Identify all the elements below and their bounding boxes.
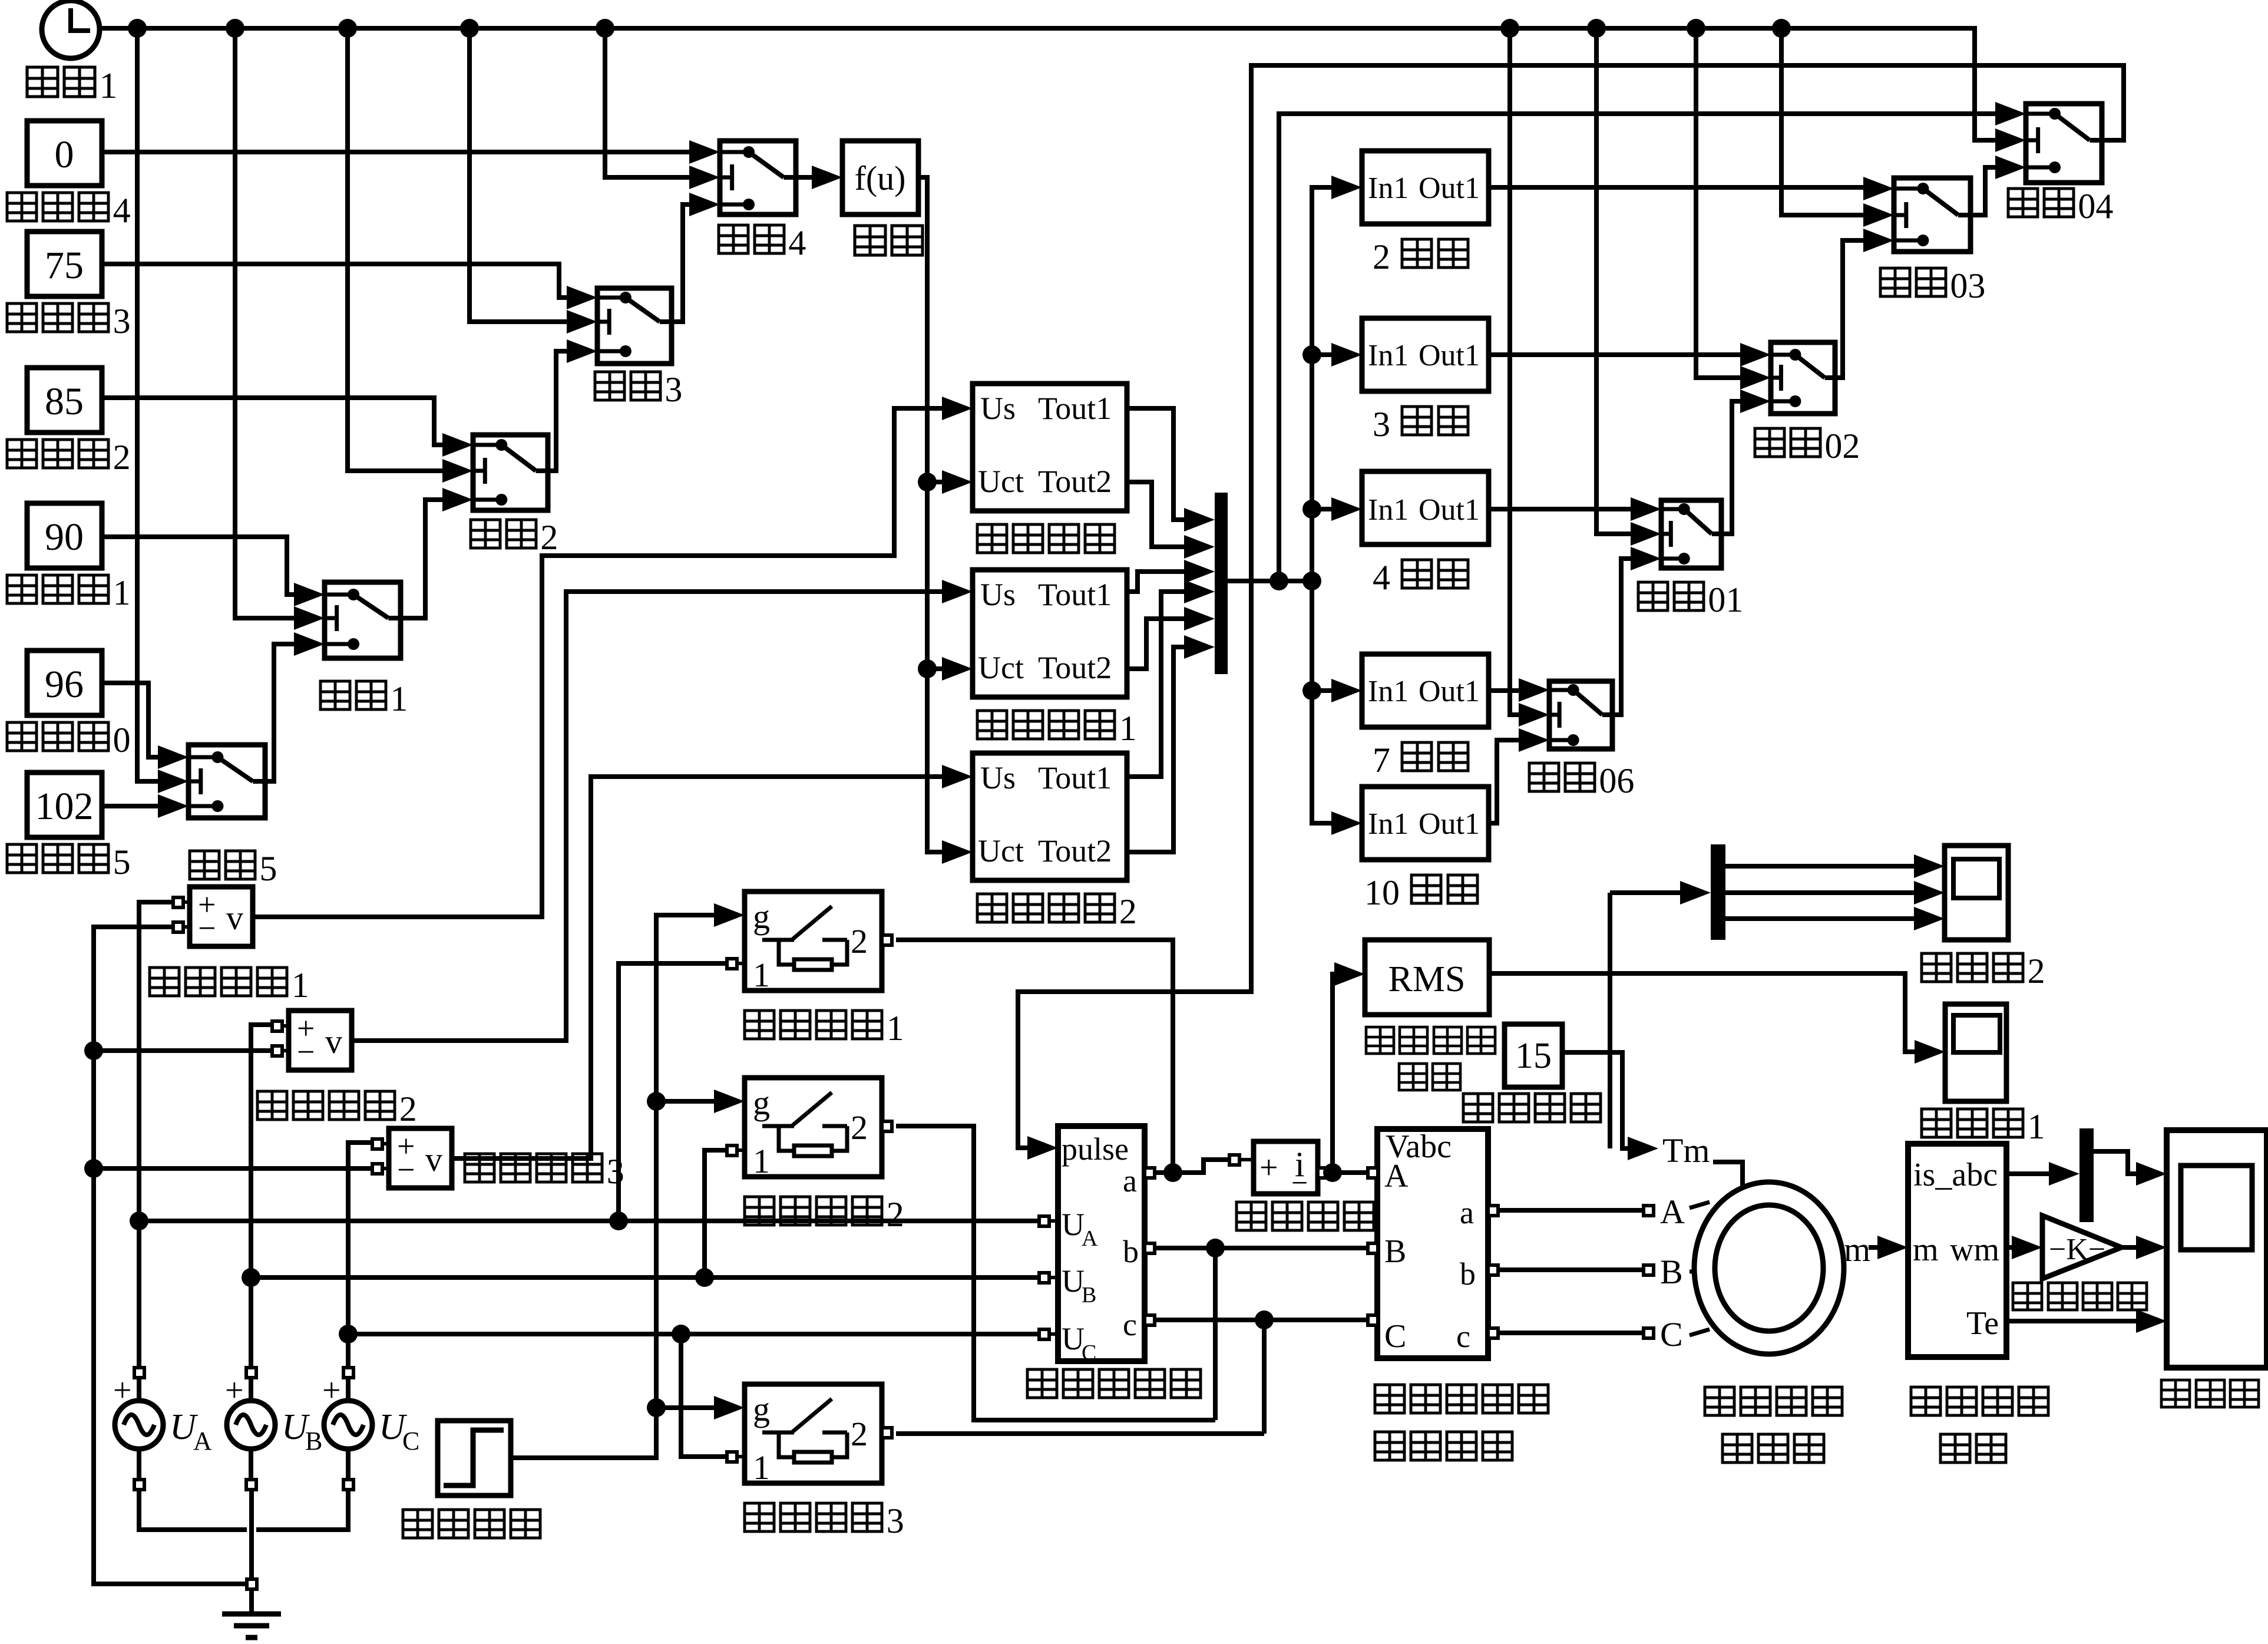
node clock junction x590: [338, 19, 357, 38]
svg-text:C: C: [1660, 1315, 1683, 1354]
port 1 of 理想开关1: [727, 959, 737, 969]
label 开关 02: [1755, 428, 1784, 457]
wire 15 to Tm input: [1562, 1052, 1628, 1148]
label 同步触发: [977, 524, 1007, 553]
port a of Vabc: [1488, 1206, 1498, 1216]
arrowhead into 开关04 input2: [1995, 128, 2026, 152]
motor block 三相异步电动机: [1694, 1182, 1844, 1354]
label 函数: [855, 226, 885, 255]
svg-text:In1: In1: [1368, 675, 1409, 708]
svg-text:C: C: [402, 1427, 419, 1455]
port 2 of 理想开关 3: [882, 1428, 892, 1438]
wire to 同步触发 Uct: [927, 480, 942, 484]
scope block 示波器2: [1945, 846, 2008, 940]
wire feeder up to 2分频 input: [1312, 187, 1331, 581]
svg-text:4: 4: [788, 223, 806, 262]
svg-text:Tm: Tm: [1662, 1131, 1710, 1170]
arrowhead into 示波器2: [1914, 907, 1945, 930]
node clock junction x2879: [1687, 19, 1705, 38]
wire 同步触发2 Tout1 to mux: [1127, 592, 1184, 777]
node clock junction x797: [460, 19, 479, 38]
wire clock to 开关4 threshold: [605, 28, 689, 177]
svg-text:Us: Us: [980, 577, 1016, 612]
svg-text:Uct: Uct: [978, 650, 1024, 685]
current measurement block 电流测量: [1254, 1141, 1318, 1194]
arrowhead g 理想开关2: [714, 1090, 745, 1113]
svg-text:1: 1: [292, 966, 309, 1005]
svg-text:v: v: [325, 1022, 342, 1061]
wire measurement common bus to ground: [94, 927, 247, 1584]
wire clock to 开关3 threshold: [470, 28, 567, 322]
arrowhead g 理想开关3: [714, 1396, 745, 1419]
label 三相电压、: [1375, 1385, 1404, 1413]
svg-text:04: 04: [2078, 187, 2113, 226]
arrowhead into 示波器2: [1914, 854, 1945, 878]
node feeder tap 4分频: [1302, 500, 1321, 519]
svg-text:3: 3: [113, 302, 131, 341]
port + of 电流测量: [1229, 1155, 1239, 1165]
svg-text:75: 75: [45, 244, 84, 287]
subsystem block 2 分频 In1 Out1: [1362, 151, 1489, 224]
svg-text:Uct: Uct: [978, 464, 1024, 499]
scope block 示波器: [2167, 1130, 2267, 1368]
wire UB- to ground: [249, 1489, 254, 1579]
node UC row tap to 理想开关3: [672, 1325, 690, 1343]
wire 0 to 开关4 input1: [102, 150, 689, 154]
svg-text:In1: In1: [1368, 493, 1409, 527]
svg-text:g: g: [753, 897, 770, 936]
wire 阶跃脉冲 to g of 理想开关1: [511, 915, 714, 1458]
port c of Vabc: [1488, 1328, 1498, 1338]
subsystem block 同步触发: [973, 384, 1127, 511]
svg-text:1: 1: [887, 1009, 904, 1048]
wire 75 to 开关3 input1: [102, 264, 567, 298]
port C of Vabc: [1368, 1315, 1378, 1325]
label 开关 2: [471, 520, 500, 548]
svg-text:01: 01: [1708, 580, 1743, 619]
svg-text:a: a: [1123, 1163, 1137, 1199]
wire 同步触发 Tout2 to mux: [1127, 482, 1184, 547]
svg-text:wm: wm: [1950, 1232, 1999, 1268]
wire b output to Vabc B: [1154, 1246, 1368, 1250]
svg-text:1: 1: [753, 1448, 770, 1487]
wire 85 to 开关2 input1: [102, 398, 442, 445]
node UB row tap to 理想开关2: [695, 1268, 714, 1287]
wire UC row: [348, 1332, 1039, 1336]
svg-text:2: 2: [113, 438, 131, 477]
wire clock to 开关1 threshold: [235, 28, 294, 618]
svg-text:1: 1: [753, 1142, 770, 1180]
wire 电流测量 to Vabc A: [1327, 1170, 1368, 1175]
port a of 主调压模块: [1145, 1168, 1155, 1178]
svg-text:1: 1: [1119, 709, 1137, 748]
port - of 电压测量 1: [173, 922, 183, 932]
wire Tm to motor: [1713, 1162, 1743, 1186]
svg-text:1: 1: [753, 956, 770, 994]
svg-text:In1: In1: [1368, 807, 1409, 841]
wire 开关1 output to 开关2 input3: [401, 500, 442, 618]
node feeder tap 3分频: [1302, 345, 1321, 364]
wire 开关2 output to 开关3 input3: [548, 351, 567, 471]
svg-text:5: 5: [259, 849, 277, 888]
port c of 主调压模块: [1145, 1315, 1155, 1325]
subsystem block 主调压模块: [1058, 1126, 1145, 1361]
node clock junction x233: [128, 19, 147, 38]
svg-text:1: 1: [113, 573, 131, 612]
wire mux output direct to 开关04 input1: [1279, 114, 1995, 581]
arrowhead into pulse: [1027, 1136, 1058, 1160]
port UB of 主调压模块: [1039, 1273, 1049, 1283]
constant block 触发角3 value 75: [27, 232, 102, 296]
port 2 of 理想开关 1: [882, 935, 892, 945]
wire 电压测量1 output to 同步触发 Us: [253, 408, 942, 917]
wire 开关4 output to 函数: [796, 175, 812, 180]
constant block 触发角2 value 85: [27, 368, 102, 433]
label 主调压模块: [1027, 1369, 1057, 1398]
wire UB tap to 理想开关2 port1: [705, 1150, 727, 1277]
constant block 最大转矩 value 15: [1505, 1024, 1562, 1087]
label 分配: [1940, 1434, 1970, 1463]
svg-text:2: 2: [1373, 237, 1390, 276]
switch block 开关 02: [1771, 342, 1835, 414]
node C bus to UC row: [339, 1325, 358, 1343]
label 电动机: [1723, 1434, 1752, 1463]
switch block 开关 3: [597, 288, 672, 364]
svg-text:Out1: Out1: [1419, 675, 1480, 708]
port A of Vabc: [1368, 1168, 1378, 1178]
subsystem block 7 分频 In1 Out1: [1362, 654, 1489, 727]
svg-text:C: C: [1082, 1341, 1096, 1365]
wire to 电压测量2 -: [94, 1048, 273, 1053]
svg-text:f(u): f(u): [855, 159, 906, 197]
svg-text:A: A: [193, 1427, 212, 1455]
label 电流均方: [1366, 1027, 1394, 1054]
port C of motor: [1644, 1328, 1654, 1338]
port 1 of 理想开关3: [727, 1452, 737, 1462]
port - of UC: [343, 1480, 353, 1490]
node clock junction x399: [226, 19, 244, 38]
mux block (scope combiner): [2079, 1128, 2094, 1222]
ground symbol: [249, 1589, 254, 1614]
gain block 转速计算: [2042, 1216, 2121, 1279]
label 转速计算: [2013, 1283, 2042, 1310]
label 同步触发 1: [977, 711, 1007, 739]
wire RMS output to 示波器1: [1489, 973, 1915, 1052]
wire wm to 转速计算: [2006, 1245, 2012, 1250]
wire 电压测量2 output to 同步触发1 Us: [352, 592, 942, 1041]
svg-text:v: v: [425, 1140, 442, 1178]
arrowhead into 示波器2: [1914, 881, 1945, 904]
wire mux output: [1228, 579, 1312, 583]
subsystem block 4 分频 In1 Out1: [1362, 471, 1489, 544]
port + of 电压测量 1: [173, 897, 183, 907]
svg-text:3: 3: [607, 1152, 624, 1191]
subsystem block 3 分频 In1 Out1: [1362, 318, 1489, 391]
arrowhead into 多路测量分配: [1877, 1236, 1908, 1259]
svg-text:−K−: −K−: [2049, 1233, 2105, 1266]
wire 电压测量3 output to 同步触发2 Us: [451, 777, 942, 1158]
wire UA- to neutral: [139, 1489, 247, 1530]
label 三相异步: [1705, 1387, 1734, 1415]
wire 开关01 output to 开关02 input3: [1721, 401, 1740, 534]
arrowhead into RMS: [1334, 962, 1365, 986]
wire to 电压测量3 -: [94, 1166, 373, 1171]
node g tap 理想开关2: [647, 1092, 666, 1111]
wire 开关04 output feedback to 主调压模块 pulse input: [1018, 65, 2124, 1148]
subsystem block 同步触发 2: [973, 753, 1127, 880]
wire mux output to 示波器: [2094, 1151, 2136, 1174]
svg-text:10: 10: [1364, 873, 1400, 912]
port - of UA: [134, 1480, 144, 1490]
voltage measurement block 电压测量 3: [389, 1128, 452, 1188]
port A of motor: [1644, 1206, 1654, 1216]
wire 2分频 output to 开关03 input1: [1489, 185, 1863, 190]
port - of UB: [246, 1480, 256, 1490]
switch block 开关 04: [2026, 104, 2102, 183]
node b junction: [1206, 1239, 1225, 1257]
label 同步触发 2: [977, 894, 1007, 922]
label 理想开关 1: [745, 1011, 774, 1039]
svg-text:b: b: [1123, 1234, 1139, 1269]
constant block 触发角4 value 0: [27, 121, 102, 186]
port + of UC: [343, 1368, 353, 1378]
node Uct tap 同步触发: [918, 473, 937, 491]
svg-text:is_abc: is_abc: [1913, 1157, 1998, 1193]
node c junction: [1255, 1310, 1274, 1329]
label 理想开关 3: [745, 1503, 774, 1531]
label 电压测量 3: [465, 1154, 494, 1182]
wire Te to 示波器: [2006, 1319, 2136, 1323]
svg-text:v: v: [226, 899, 243, 937]
arrowhead into 示波器1: [1915, 1040, 1945, 1064]
svg-text:Uct: Uct: [978, 833, 1024, 869]
subsystem block 10 分频 In1 Out1: [1362, 787, 1489, 860]
node clock junction x3024: [1772, 19, 1791, 38]
label 理想开关 2: [745, 1197, 774, 1225]
label 时钟 1: [27, 67, 58, 97]
svg-text:−: −: [1291, 1166, 1308, 1199]
wire UA tap to 理想开关1 port1: [619, 963, 727, 1221]
wire gain output to 示波器: [2121, 1245, 2136, 1250]
label 触发角 5: [7, 844, 37, 873]
wire phase C bus: [348, 1143, 373, 1368]
label 开关 4: [719, 225, 748, 253]
svg-text:7: 7: [1373, 741, 1390, 780]
svg-text:C: C: [1384, 1318, 1406, 1355]
port UC of 主调压模块: [1039, 1329, 1049, 1339]
wire a to motor A: [1497, 1208, 1644, 1213]
svg-text:Tout1: Tout1: [1038, 577, 1112, 612]
svg-text:In1: In1: [1368, 339, 1409, 372]
port + of UB: [246, 1368, 256, 1378]
wire a output to 电流测量 +: [1154, 1160, 1229, 1173]
constant block 触发角0 value 96: [27, 651, 102, 715]
svg-text:In1: In1: [1368, 171, 1409, 205]
svg-text:Tout1: Tout1: [1038, 760, 1112, 795]
port - of 电压测量 3: [372, 1164, 382, 1174]
svg-text:Tout2: Tout2: [1038, 464, 1112, 499]
arrowhead g 理想开关1: [714, 903, 745, 927]
demux block 多路测量分配: [1908, 1144, 2006, 1357]
port 1 of 理想开关2: [727, 1145, 737, 1156]
label 示波器 1: [1922, 1109, 1951, 1137]
svg-text:1: 1: [99, 66, 117, 106]
port ground: [247, 1579, 257, 1589]
svg-text:g: g: [753, 1390, 770, 1428]
wire 4分频 output to 开关01 input1: [1489, 507, 1631, 511]
wire UC- to neutral: [256, 1489, 348, 1530]
wire feeder down to 10分频 input: [1312, 581, 1331, 823]
wire 102 to 开关5 input3: [102, 804, 158, 808]
svg-text:3: 3: [1373, 405, 1390, 444]
wire clock to 开关02 threshold: [1696, 28, 1740, 378]
wire 同步触发2 Tout2 to mux: [1127, 647, 1184, 852]
svg-text:+: +: [1259, 1150, 1278, 1186]
constant block 触发角1 value 90: [27, 503, 102, 568]
wire node to demux vertical: [1608, 893, 1612, 1148]
voltage measurement block 电压测量 1: [190, 887, 253, 946]
RMS block 电流均方计算: [1365, 940, 1489, 1015]
port out of 电流测量: [1318, 1168, 1328, 1178]
switch block 开关 01: [1661, 500, 1721, 568]
svg-text:Out1: Out1: [1419, 339, 1480, 372]
svg-text:−: −: [198, 910, 216, 946]
constant block 触发角5 value 102: [27, 773, 102, 837]
wire 开关3 output to 开关4 input3: [672, 204, 689, 322]
label 电压测量 2: [257, 1091, 287, 1120]
label 开关 03: [1880, 268, 1910, 296]
label 触发角 0: [7, 722, 37, 751]
wire c output to Vabc C: [1154, 1318, 1368, 1322]
svg-text:pulse: pulse: [1062, 1131, 1129, 1167]
wire 开关02 output to 开关03 input3: [1835, 240, 1863, 378]
svg-text:90: 90: [45, 516, 84, 559]
svg-text:2: 2: [399, 1090, 417, 1128]
svg-text:1: 1: [2028, 1107, 2045, 1146]
svg-text:03: 03: [1950, 266, 1985, 305]
svg-text:Out1: Out1: [1419, 171, 1480, 205]
wire clock to 开关2 threshold: [348, 28, 442, 471]
wire 同步触发1 Tout2 to mux: [1127, 619, 1184, 669]
label 开关 01: [1638, 582, 1668, 610]
svg-text:A: A: [1082, 1226, 1098, 1251]
wire 开关06 output to 开关01 input3: [1612, 559, 1631, 715]
node common bus tap m3-: [84, 1159, 103, 1178]
svg-text:a: a: [1460, 1195, 1474, 1230]
svg-text:m: m: [1844, 1230, 1870, 1269]
node current tap to RMS: [1323, 1163, 1342, 1182]
port + of 电压测量 3: [372, 1139, 382, 1149]
port B of Vabc: [1368, 1243, 1378, 1253]
arrowhead into mux row 1050: [1184, 607, 1215, 630]
svg-text:Tout2: Tout2: [1038, 833, 1112, 869]
svg-text:−: −: [297, 1034, 315, 1069]
wire clock to 开关01 threshold: [1596, 28, 1631, 534]
arrowhead into mux: [2049, 1162, 2079, 1186]
svg-text:RMS: RMS: [1388, 959, 1466, 999]
wire c to motor C: [1497, 1331, 1644, 1335]
port - of 电压测量 2: [272, 1046, 282, 1056]
svg-text:2: 2: [1119, 892, 1137, 931]
arrowhead into 示波器: [2136, 1162, 2167, 1186]
switch block 开关 4: [720, 141, 796, 214]
svg-text:3: 3: [664, 370, 682, 409]
three-phase measurement block 三相电压电流测量: [1377, 1129, 1488, 1358]
wire phase B bus: [251, 1025, 272, 1368]
arrowhead into mux row 882: [1184, 508, 1215, 532]
svg-text:A: A: [1384, 1158, 1409, 1194]
wire clock to 开关06 threshold: [1510, 28, 1519, 715]
arrowhead into demux: [1680, 881, 1711, 904]
wire 7分频 output to 开关06 input1: [1489, 688, 1519, 693]
svg-text:0: 0: [55, 133, 74, 176]
ideal switch block 理想开关 1: [745, 892, 882, 991]
svg-text:102: 102: [35, 785, 94, 828]
svg-text:A: A: [1660, 1193, 1685, 1231]
mux block (trigger pulse combiner): [1215, 493, 1228, 674]
label 触发角 2: [7, 440, 37, 468]
svg-text:Tout1: Tout1: [1038, 391, 1112, 426]
switch block 开关 06: [1549, 681, 1612, 749]
wire f(u) output to Uct inputs chain: [918, 177, 942, 852]
label 计算: [1399, 1064, 1427, 1090]
port 2 of 理想开关 2: [882, 1121, 892, 1131]
switch block 开关 1: [325, 582, 401, 658]
wire b junction drop: [1213, 1248, 1218, 1420]
svg-text:g: g: [753, 1084, 770, 1122]
switch block 开关 03: [1894, 178, 1971, 252]
subsystem block 同步触发 1: [973, 570, 1127, 697]
node a junction: [1163, 1163, 1182, 1182]
node g tap 理想开关3: [647, 1398, 666, 1417]
demux block (scope2 splitter): [1711, 844, 1725, 940]
label 开关 04: [2008, 189, 2038, 217]
wire 96 to 开关5 input1: [102, 683, 158, 757]
wire 理想开关1 port2 to node a: [896, 940, 1173, 1173]
svg-text:96: 96: [45, 663, 84, 706]
svg-text:Tout2: Tout2: [1038, 650, 1112, 685]
wire phase A bus: [139, 902, 173, 1368]
svg-text:Out1: Out1: [1419, 807, 1480, 841]
label 开关 06: [1529, 763, 1559, 791]
clock block 时钟1: [42, 1, 100, 58]
svg-text:4: 4: [1373, 558, 1390, 597]
node A bus to UA row: [130, 1211, 148, 1230]
svg-text:15: 15: [1515, 1036, 1552, 1076]
label 电流测量: [1237, 1202, 1266, 1230]
svg-text:2: 2: [851, 1108, 868, 1147]
label 触发角 4: [7, 193, 37, 221]
node mux output junction 2: [1302, 572, 1321, 590]
step icon: [444, 1430, 504, 1485]
label 示波器 2: [1922, 953, 1951, 982]
svg-text:Out1: Out1: [1419, 493, 1480, 527]
node clock junction x1027: [596, 19, 614, 38]
wire demux out row 1470: [1725, 864, 1914, 869]
label 触发角 1: [7, 575, 37, 603]
arrowhead into mux row 970: [1184, 560, 1215, 583]
voltage measurement block 电压测量 2: [289, 1011, 352, 1070]
svg-text:2: 2: [851, 1415, 868, 1453]
function block 函数 f(u): [842, 141, 918, 214]
svg-text:4: 4: [113, 191, 131, 230]
label 触发角 3: [7, 303, 37, 332]
label 多路测量: [1911, 1387, 1940, 1415]
wire clock to 开关5 threshold: [137, 28, 158, 781]
wire 理想开关2 port2 to node b: [896, 1126, 1215, 1420]
arrowhead into mux row 1004: [1184, 580, 1215, 603]
node common bus tap m2-: [84, 1041, 103, 1060]
